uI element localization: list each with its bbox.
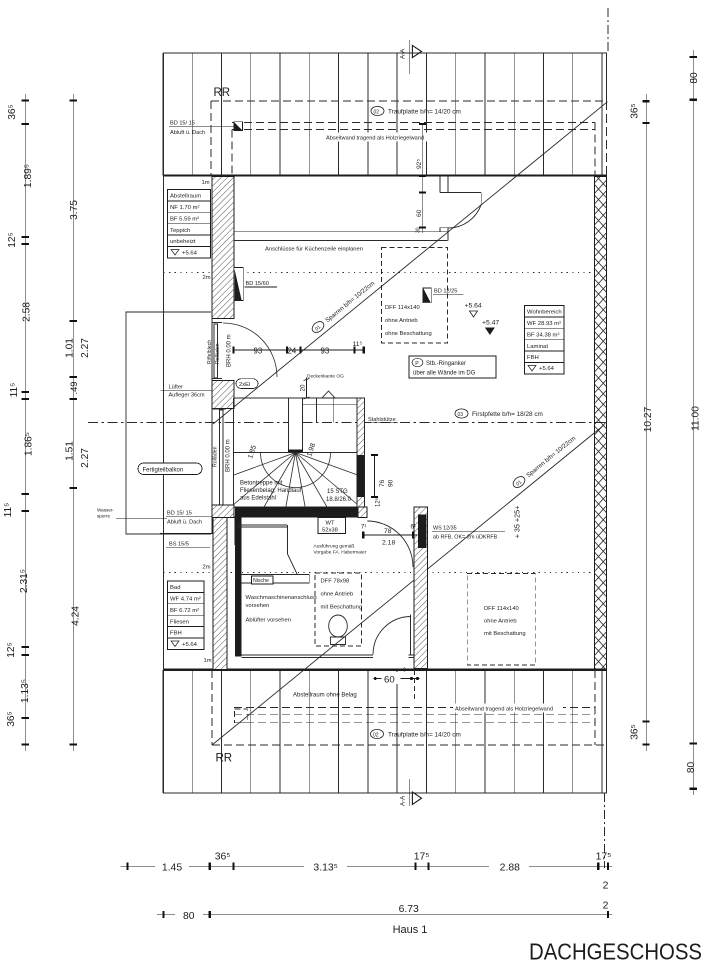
niche in bath wall	[241, 575, 309, 585]
svg-text:Bad: Bad	[170, 585, 180, 591]
bottom eaves wall line	[163, 669, 607, 671]
svg-text:11.00: 11.00	[691, 406, 702, 431]
Luefter label	[161, 385, 212, 399]
svg-text:Stb.-Ringanker: Stb.-Ringanker	[426, 361, 466, 367]
svg-text:Abluft ü. Dach: Abluft ü. Dach	[167, 520, 202, 526]
2xEl stadium label	[236, 379, 258, 389]
svg-text:Lüfter: Lüfter	[169, 385, 183, 391]
svg-text:52x38: 52x38	[322, 528, 338, 534]
svg-text:mit Beschattung: mit Beschattung	[484, 631, 526, 637]
upper balcony door sill	[212, 323, 222, 379]
bath top wall stub hatched	[358, 507, 367, 518]
svg-text:Ausführung gemäß: Ausführung gemäß	[314, 544, 355, 550]
svg-text:90: 90	[388, 479, 395, 487]
dashed corner vertical top right	[601, 101, 603, 123]
hall right wall hatched	[414, 507, 428, 669]
svg-text:BF 34.38 m²: BF 34.38 m²	[527, 332, 559, 338]
shower partition	[237, 525, 298, 575]
svg-text:Fliesen: Fliesen	[170, 619, 189, 625]
dashed 1m roof height line top	[211, 100, 607, 102]
svg-text:36⁵: 36⁵	[630, 103, 641, 119]
svg-text:2.18: 2.18	[382, 540, 395, 547]
svg-text:Deckenkante OG: Deckenkante OG	[307, 373, 344, 379]
svg-text:11⁵: 11⁵	[9, 383, 20, 398]
vent BS 15/5 label	[166, 542, 210, 548]
right dimension chain 2	[692, 50, 694, 795]
svg-text:80: 80	[183, 911, 195, 922]
stair well boundary	[234, 398, 366, 507]
svg-text:10.27: 10.27	[643, 406, 654, 432]
roof window DFF 78x98 dashed	[315, 573, 362, 646]
section line A-A dash-dot horizontal	[88, 422, 607, 424]
dotted 2m line upper	[164, 272, 595, 274]
svg-text:+5.64: +5.64	[465, 303, 482, 310]
Bad room data table	[168, 581, 205, 649]
rotated labels lower door	[213, 439, 232, 472]
svg-text:36⁵: 36⁵	[215, 852, 231, 863]
bottom dimension row 1	[121, 852, 613, 892]
svg-text:2.31⁵: 2.31⁵	[19, 569, 30, 593]
svg-text:1m: 1m	[202, 180, 210, 186]
svg-text:93: 93	[321, 346, 330, 355]
svg-text:WS 12/35: WS 12/35	[433, 526, 457, 532]
svg-text:BD 15/60: BD 15/60	[246, 281, 269, 287]
svg-text:12⁵: 12⁵	[375, 497, 382, 507]
svg-text:BF 6.72 m²: BF 6.72 m²	[170, 608, 199, 614]
svg-text:1.51: 1.51	[65, 441, 76, 461]
svg-text:mit Beschattung: mit Beschattung	[321, 605, 363, 611]
bath interior wall black vertical	[235, 515, 241, 657]
level mark +5.64	[465, 303, 482, 318]
label Abseitwand top	[324, 133, 434, 142]
svg-text:ohne Antrieb: ohne Antrieb	[484, 619, 517, 625]
svg-text:unbeheizt: unbeheizt	[170, 239, 196, 245]
svg-text:80: 80	[689, 72, 700, 84]
svg-text:ohne Antrieb: ohne Antrieb	[385, 318, 418, 324]
dim 60 door below	[374, 668, 420, 686]
wall strip right of stair	[357, 398, 365, 507]
svg-text:Riffelblech: Riffelblech	[207, 340, 213, 364]
svg-text:Aufleger 36cm: Aufleger 36cm	[169, 393, 205, 399]
dashed vertical x232 top band	[231, 130, 233, 176]
kitchen counter line 2	[234, 239, 448, 241]
svg-text:BD 15/ 15: BD 15/ 15	[170, 121, 195, 127]
stair direction triangle	[322, 391, 335, 398]
svg-text:BD 12/25: BD 12/25	[434, 289, 457, 295]
svg-text:Teppich: Teppich	[170, 228, 190, 234]
dashed Abseitwand line 2 top	[232, 129, 595, 131]
svg-text:A-A: A-A	[400, 795, 407, 806]
Wasser sperre note	[97, 508, 167, 519]
left outer edge line	[163, 53, 165, 793]
svg-text:24: 24	[288, 346, 297, 355]
DFF 114x140 bottom label	[484, 606, 526, 637]
bath outer left wall hatched	[212, 505, 234, 518]
stair winder radial steps	[234, 453, 357, 507]
svg-text:+5.47: +5.47	[482, 320, 499, 327]
svg-text:Laminat: Laminat	[527, 344, 548, 350]
svg-text:2.27: 2.27	[80, 448, 91, 468]
vent triangle at bath wall top	[235, 516, 242, 546]
svg-text:1.89⁵: 1.89⁵	[23, 164, 34, 188]
Ausfuehrung note	[314, 544, 367, 556]
svg-text:FBH: FBH	[527, 355, 539, 361]
svg-text:2m: 2m	[203, 565, 211, 571]
section mark A-A top	[400, 40, 422, 74]
Stahlstuetze column and label	[358, 417, 398, 427]
bath bottom door leaf and swing	[373, 615, 411, 656]
upper flight step lines	[317, 398, 334, 422]
vent shaft symbol in wall	[234, 267, 243, 300]
WC toilet	[329, 615, 348, 645]
right dimension chain 1	[645, 94, 647, 751]
svg-text:17⁵: 17⁵	[596, 852, 612, 863]
svg-text:6¹: 6¹	[411, 525, 416, 531]
dim row 93 24 93 11.5	[234, 341, 364, 355]
svg-text:Nische: Nische	[253, 578, 269, 584]
svg-text:18.8/26.0: 18.8/26.0	[326, 497, 352, 503]
svg-text:20: 20	[300, 384, 307, 392]
svg-text:2m: 2m	[203, 275, 211, 281]
svg-text:BRH 0.00 m: BRH 0.00 m	[227, 334, 233, 367]
svg-text:Abseitwand tragend als Holzrie: Abseitwand tragend als Holzriegelwand	[326, 136, 424, 142]
door leaf black between stair and living	[357, 455, 365, 497]
svg-text:2.58: 2.58	[22, 302, 33, 322]
svg-text:+5.64: +5.64	[539, 366, 555, 372]
svg-text:BS 15/5: BS 15/5	[169, 542, 189, 548]
bath bottom wall	[241, 655, 414, 658]
dashed 1m roof height line bottom	[212, 744, 607, 746]
vent BD 15/15 bath label	[166, 511, 212, 526]
Abstellraum room data table	[168, 190, 211, 258]
right outer edge line	[606, 53, 608, 101]
vent BD 15/15 top label	[169, 121, 234, 137]
svg-text:BF 5.59 m²: BF 5.59 m²	[170, 216, 199, 222]
Wohnbereich room data table	[525, 306, 565, 374]
svg-text:Firstpfette b/h= 18/28 cm: Firstpfette b/h= 18/28 cm	[472, 411, 543, 418]
dashed 1m vertical bottom at rain pipe	[211, 670, 213, 745]
door frame black at hall wall	[418, 515, 427, 549]
svg-text:2.27: 2.27	[80, 338, 91, 358]
stair walk line arc	[261, 453, 331, 488]
svg-text:sperre: sperre	[97, 514, 110, 519]
dashed Abseitwand line 2 bottom	[234, 713, 595, 715]
svg-text:60: 60	[384, 675, 395, 686]
Abstellraum right wall hatched	[212, 177, 234, 319]
svg-text:DFF 114x140: DFF 114x140	[385, 305, 420, 311]
rafter diagonal 01 upper	[213, 102, 608, 424]
svg-text:2: 2	[603, 901, 609, 912]
svg-text:DACHGESCHOSS: DACHGESCHOSS	[529, 939, 702, 965]
Fertigteilbalkon stadium label	[138, 463, 202, 475]
vent symbol top band	[234, 122, 243, 131]
svg-text:93: 93	[254, 346, 263, 355]
dashed small rect bottom left	[234, 709, 247, 723]
WT sink box	[318, 518, 346, 534]
WS 12/35 label	[432, 526, 505, 541]
Luefter pier hatched	[212, 381, 234, 409]
svg-text:.49: .49	[68, 381, 79, 394]
left dimension chain 1	[24, 94, 26, 751]
svg-text:NF 1.70 m²: NF 1.70 m²	[170, 205, 199, 211]
svg-text:RR: RR	[216, 753, 233, 765]
rafter label 01 upper	[310, 278, 376, 334]
lower balcony door sill	[212, 409, 226, 506]
roof window DFF 114x140 dashed bottom right	[467, 573, 535, 665]
dotted 2m line lower	[164, 572, 595, 574]
svg-text:Fliesenbelag, Handlauf: Fliesenbelag, Handlauf	[240, 488, 302, 494]
svg-text:Wohnbereich: Wohnbereich	[527, 310, 562, 316]
dashed vertical right top band	[594, 123, 596, 176]
svg-text:76: 76	[379, 479, 386, 487]
stair note Betontreppe	[240, 481, 302, 502]
dim 20 at stair top	[300, 378, 310, 400]
bottom dimension row 2	[157, 901, 612, 937]
svg-text:+ 35 +25+: + 35 +25+	[513, 506, 522, 539]
svg-text:02: 02	[374, 109, 380, 115]
svg-text:3.13⁵: 3.13⁵	[313, 863, 338, 874]
svg-text:WT: WT	[326, 521, 335, 527]
DFF 78x98 label	[321, 579, 363, 611]
Ringanker note box	[409, 356, 496, 378]
svg-text:60: 60	[416, 209, 423, 217]
vent BD 15/60 label	[245, 281, 278, 287]
svg-text:DFF 114x140: DFF 114x140	[484, 606, 519, 612]
svg-text:6: 6	[403, 668, 406, 674]
svg-text:Traufplatte b/h= 14/20 cm: Traufplatte b/h= 14/20 cm	[388, 732, 461, 739]
svg-text:Betontreppe mit: Betontreppe mit	[240, 481, 283, 487]
balcony inner wall face line	[211, 319, 213, 535]
door dim 76 90	[371, 455, 395, 497]
vent BD 12/25	[423, 288, 464, 303]
svg-text:2xEl: 2xEl	[239, 382, 250, 388]
svg-text:78: 78	[384, 528, 392, 535]
svg-text:Abluft ü. Dach: Abluft ü. Dach	[170, 130, 205, 136]
bath top wall dark	[235, 507, 358, 518]
svg-text:RR: RR	[214, 87, 231, 99]
level mark +5.47	[482, 320, 499, 336]
stair count label 15 STG	[326, 489, 352, 503]
DFF 114x140 top label	[385, 305, 432, 337]
label Traufplatte top with ref 02	[371, 106, 461, 115]
washing machine note	[246, 595, 317, 624]
svg-text:1.01: 1.01	[65, 338, 76, 358]
svg-text:36⁵: 36⁵	[6, 711, 17, 727]
svg-text:Waschmaschinenanschluss: Waschmaschinenanschluss	[246, 595, 317, 601]
right boundary dash-dot line below plan	[604, 793, 606, 868]
svg-text:aus Edelstahl: aus Edelstahl	[240, 496, 276, 502]
svg-text:A-A: A-A	[400, 48, 407, 59]
svg-text:2.88: 2.88	[500, 863, 520, 874]
rafter label 01 lower	[511, 433, 577, 489]
dashed Abseitwand line 1 top	[232, 122, 595, 124]
svg-text:FBH: FBH	[170, 631, 182, 637]
alcove door swing	[448, 204, 482, 228]
svg-text:Stahlstütze: Stahlstütze	[368, 417, 396, 423]
svg-text:Anschlüsse für Küchenzeile: Anschlüsse für Küchenzeile einplanen	[265, 247, 363, 253]
top eaves wall line	[163, 174, 607, 176]
svg-text:Rolläden: Rolläden	[213, 446, 219, 467]
svg-text:ohne Antrieb: ohne Antrieb	[321, 592, 354, 598]
svg-text:WF 28.93 m²: WF 28.93 m²	[527, 321, 561, 327]
svg-text:4.24: 4.24	[71, 606, 82, 626]
svg-text:Haus 1: Haus 1	[393, 924, 428, 936]
svg-text:11⁵: 11⁵	[353, 341, 363, 348]
dashed vertical right bottom band	[594, 670, 596, 745]
svg-text:6.73: 6.73	[399, 904, 419, 915]
dashed Traufplatte line bottom	[234, 722, 595, 724]
svg-text:1m: 1m	[204, 658, 212, 664]
svg-text:17⁵: 17⁵	[414, 852, 430, 863]
svg-text:P: P	[415, 361, 419, 367]
right outer wall cross-hatched	[595, 177, 607, 670]
svg-text:36⁵: 36⁵	[630, 724, 641, 740]
section mark A-A bottom	[400, 779, 422, 806]
svg-text:11⁵: 11⁵	[3, 503, 14, 518]
label Traufplatte bottom with ref 02	[371, 729, 461, 738]
kitchen counter line 1	[234, 231, 448, 233]
svg-text:12⁵: 12⁵	[7, 232, 18, 248]
bath entry door swing	[367, 521, 413, 567]
svg-text:vorsehen: vorsehen	[246, 603, 270, 609]
svg-text:Ablüfter vorsehen: Ablüfter vorsehen	[246, 618, 291, 624]
right boundary dash-dot line above plan	[607, 8, 609, 53]
svg-text:Wasser-: Wasser-	[97, 508, 114, 513]
dashed wall projection in bottom band	[414, 670, 416, 700]
svg-text:02: 02	[373, 732, 379, 738]
svg-text:Abseitwand tragend als Holzrie: Abseitwand tragend als Holzriegelwand	[455, 707, 553, 713]
dashed Abseitwand line 1 bottom	[234, 707, 595, 709]
svg-text:Fertigteilbalkon: Fertigteilbalkon	[143, 467, 184, 473]
rafter diagonal 01 lower	[212, 425, 604, 745]
balcony outline	[126, 312, 211, 534]
svg-text:03: 03	[458, 412, 464, 418]
svg-text:1.45: 1.45	[162, 863, 182, 874]
svg-text:80: 80	[686, 762, 697, 774]
svg-text:12⁵: 12⁵	[6, 642, 17, 658]
svg-text:über alle Wände im DG: über alle Wände im DG	[413, 371, 476, 377]
svg-text:1.13⁵: 1.13⁵	[20, 679, 31, 703]
Firstpfette label with ref 03	[455, 409, 543, 418]
svg-text:36⁵: 36⁵	[7, 104, 18, 120]
svg-text:3.75: 3.75	[69, 200, 80, 220]
dim 92.5 60 30 vertical	[416, 124, 427, 233]
svg-text:BD 15/ 15: BD 15/ 15	[167, 511, 192, 517]
upper balcony door swing	[223, 323, 277, 377]
left dimension chain 2	[72, 94, 74, 751]
svg-text:DFF 78x98: DFF 78x98	[321, 579, 350, 585]
svg-text:+5.64: +5.64	[182, 251, 198, 257]
svg-text:Abstellraum: Abstellraum	[170, 194, 201, 200]
door dim 78 / 2.18	[361, 525, 417, 547]
svg-text:7¹: 7¹	[361, 525, 366, 531]
svg-text:ohne Beschattung: ohne Beschattung	[385, 331, 432, 337]
top duct alcove outline	[440, 177, 481, 241]
svg-text:1.86⁵: 1.86⁵	[24, 432, 35, 456]
svg-text:BRH 0.00 m: BRH 0.00 m	[226, 439, 232, 472]
label Abseitwand bottom	[453, 704, 563, 713]
svg-text:Abstellraum ohne Belag: Abstellraum ohne Belag	[293, 693, 357, 699]
bottom roof band rafter lines	[163, 670, 607, 793]
stair spine newel wall	[288, 398, 302, 452]
svg-text:92⁵: 92⁵	[416, 159, 423, 169]
svg-text:Vorgabe FA. Habermaier: Vorgabe FA. Habermaier	[314, 550, 367, 556]
top roof band rafter lines	[163, 53, 607, 176]
roof window DFF 114x140 dashed top	[381, 247, 447, 342]
svg-text:Rolläden: Rolläden	[215, 343, 221, 364]
svg-text:15 STG: 15 STG	[327, 489, 348, 495]
rotated labels upper door	[207, 334, 233, 367]
dashed 1m vertical top at rain pipe	[210, 101, 212, 176]
svg-text:ab RFB, OK=-2m üDKRFB: ab RFB, OK=-2m üDKRFB	[433, 535, 498, 541]
svg-text:Traufplatte b/h= 14/20 cm: Traufplatte b/h= 14/20 cm	[388, 109, 461, 116]
leader line to wall	[160, 533, 212, 535]
svg-text:30: 30	[416, 227, 422, 233]
svg-text:2: 2	[603, 881, 609, 892]
svg-text:+5.64: +5.64	[182, 642, 198, 648]
svg-text:WF 4.74 m²: WF 4.74 m²	[170, 597, 201, 603]
